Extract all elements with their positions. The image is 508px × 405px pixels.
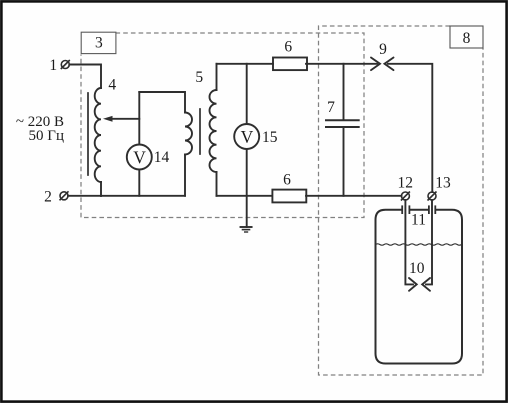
svg-text:11: 11 xyxy=(411,211,426,228)
svg-text:V: V xyxy=(133,147,146,167)
svg-text:9: 9 xyxy=(379,41,387,58)
svg-text:6: 6 xyxy=(284,38,292,55)
svg-text:12: 12 xyxy=(397,174,413,191)
svg-text:8: 8 xyxy=(463,30,471,47)
svg-text:7: 7 xyxy=(327,99,335,116)
svg-text:3: 3 xyxy=(95,35,103,52)
svg-text:1: 1 xyxy=(49,57,57,74)
svg-text:4: 4 xyxy=(108,76,116,93)
svg-text:50 Гц: 50 Гц xyxy=(29,128,64,144)
svg-text:13: 13 xyxy=(435,174,451,191)
svg-text:15: 15 xyxy=(262,129,278,146)
svg-text:5: 5 xyxy=(195,69,203,86)
svg-text:6: 6 xyxy=(283,171,291,188)
svg-text:14: 14 xyxy=(154,149,170,166)
svg-text:2: 2 xyxy=(44,188,52,205)
svg-text:10: 10 xyxy=(409,260,425,277)
svg-text:V: V xyxy=(241,127,254,147)
